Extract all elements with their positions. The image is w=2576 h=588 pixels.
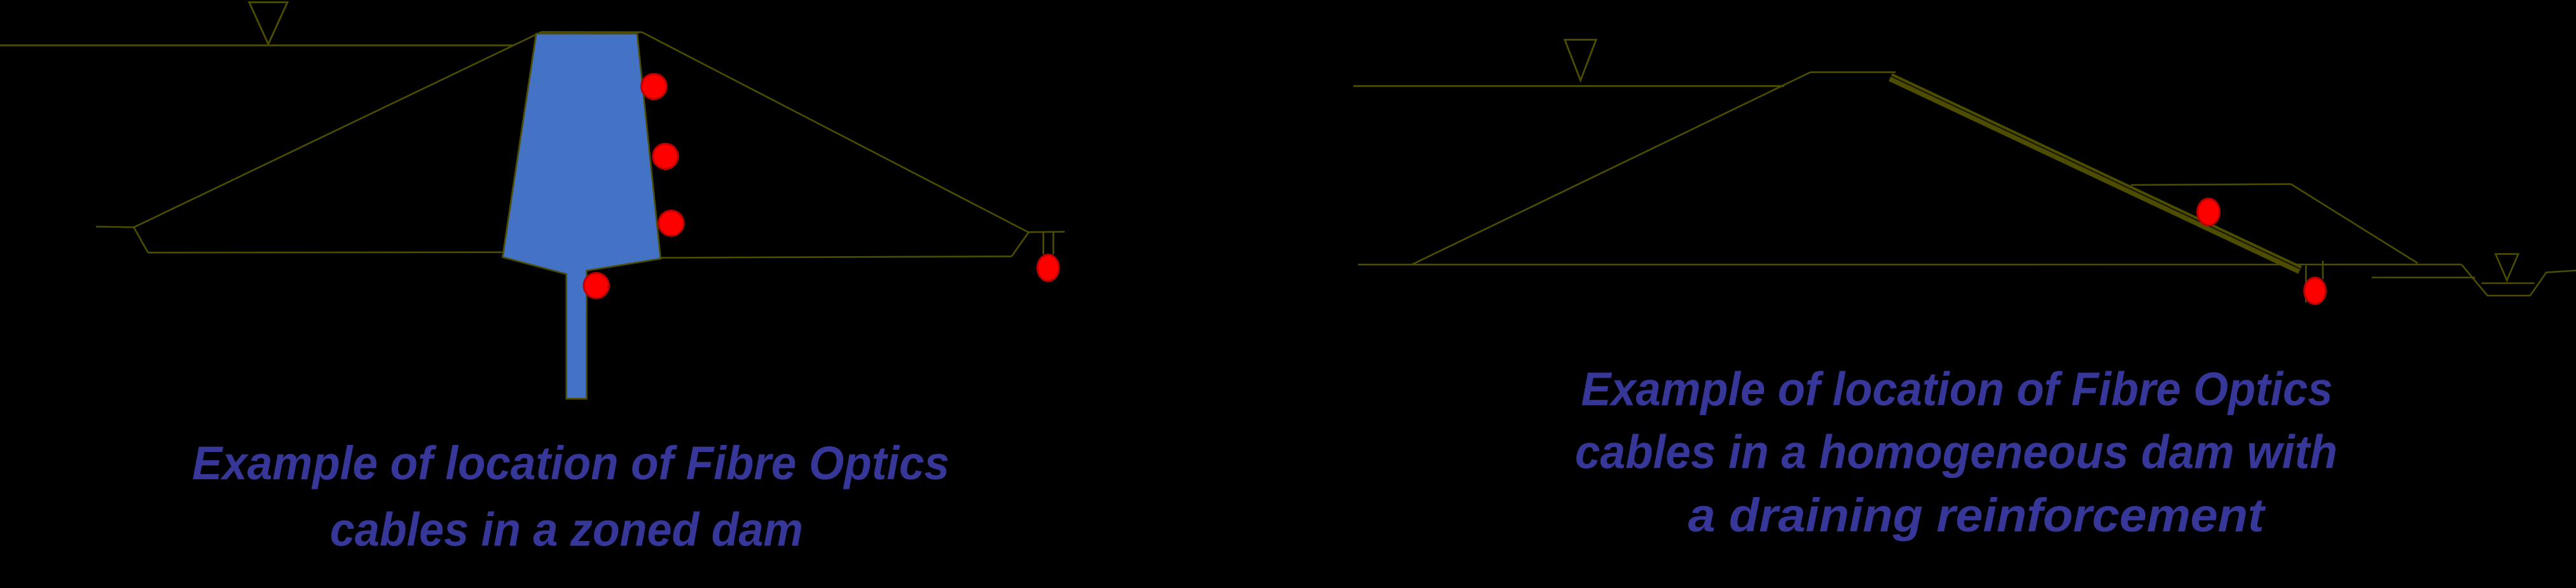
svg-text:a draining reinforcement: a draining reinforcement bbox=[1688, 489, 2267, 542]
outlet weir vertical 1 bbox=[1043, 232, 1045, 254]
upstream water level line bbox=[0, 44, 513, 46]
outlet vertical line 1 bbox=[2305, 266, 2307, 303]
upstream slope line bbox=[134, 32, 542, 227]
fibre optic cable dot 3 bbox=[659, 211, 684, 236]
base line upstream half bbox=[148, 251, 504, 253]
downstream slope line bbox=[642, 32, 1029, 233]
upstream water level line bbox=[1353, 85, 1784, 87]
svg-text:Example of location of Fibre O: Example of location of Fibre Optics bbox=[1581, 362, 2332, 415]
downstream berm line bbox=[2131, 184, 2291, 185]
outlet weir vertical 2 bbox=[1052, 232, 1054, 254]
svg-text:cables in a zoned dam: cables in a zoned dam bbox=[330, 503, 803, 556]
upstream water level triangle bbox=[249, 3, 287, 44]
fibre optic cable dot 1 bbox=[642, 74, 666, 99]
crest line bbox=[542, 31, 642, 33]
clay core with cutoff trench (blue) bbox=[502, 34, 661, 399]
right ground line bbox=[1028, 231, 1064, 233]
svg-text:Example of location of Fibre O: Example of location of Fibre Optics bbox=[192, 437, 949, 489]
ditch water level triangle bbox=[2496, 254, 2519, 280]
downstream toe diagonal bbox=[1012, 233, 1029, 257]
upstream water level triangle bbox=[1565, 40, 1596, 81]
fibre optic cable dot 4 bbox=[584, 273, 609, 298]
fibre optic cable dot 2 bbox=[653, 144, 678, 168]
ditch water level line bbox=[2481, 282, 2534, 284]
draining band dark seam bbox=[1891, 76, 2300, 269]
outlet vertical line 2 bbox=[2322, 261, 2324, 279]
upstream toe diagonal bbox=[134, 228, 148, 253]
fibre optic cable dot 5 at downstream outlet bbox=[1038, 255, 1059, 281]
crest line bbox=[1810, 71, 1896, 73]
toe drain channel line bbox=[2372, 277, 2475, 278]
svg-text:cables in a homogeneous dam wi: cables in a homogeneous dam with bbox=[1575, 426, 2338, 479]
drainage ditch profile bbox=[2462, 264, 2576, 296]
left ground line bbox=[96, 227, 134, 228]
draining reinforcement thick band bbox=[1891, 77, 2300, 270]
fibre optic cable dot B at drain outlet bbox=[2304, 278, 2326, 304]
upstream slope line bbox=[1412, 72, 1810, 265]
fibre optic cable dot A on drain bbox=[2198, 199, 2220, 226]
downstream slope lower line bbox=[2291, 184, 2418, 263]
foundation base line bbox=[1358, 264, 2462, 266]
base line downstream half bbox=[661, 256, 1012, 257]
